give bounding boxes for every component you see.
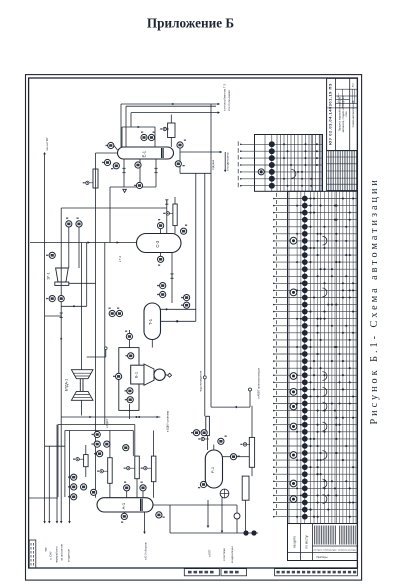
svg-text:Изм Лист: Изм Лист xyxy=(338,93,340,102)
svg-text:на щите: на щите xyxy=(293,536,297,548)
svg-text:Р-1: Р-1 xyxy=(210,466,215,473)
svg-text:2-х ступенчатая: 2-х ступенчатая xyxy=(227,90,231,111)
svg-text:Е-1: Е-1 xyxy=(142,150,147,157)
svg-text:Т-1: Т-1 xyxy=(148,318,153,325)
svg-text:Рисунок Б.1- Схема автоматиза: Рисунок Б.1- Схема автоматизации xyxy=(369,177,380,424)
svg-text:в БДКУ установку: в БДКУ установку xyxy=(166,410,170,432)
svg-text:конденсации: конденсации xyxy=(230,546,234,563)
svg-text:пар: пар xyxy=(44,547,48,552)
svg-text:контроль расхода: контроль расхода xyxy=(338,550,357,552)
svg-text:БТДА-1: БТДА-1 xyxy=(65,379,69,391)
svg-text:В-1: В-1 xyxy=(134,371,139,378)
svg-text:в теплообменник Т-2: в теплообменник Т-2 xyxy=(223,83,227,111)
svg-text:в БДКУ: в БДКУ xyxy=(105,418,109,428)
svg-text:на орошение: на орошение xyxy=(60,544,64,561)
svg-text:отдувка: отдувка xyxy=(211,160,215,170)
svg-text:Приборы: Приборы xyxy=(317,555,328,559)
svg-text:к Т-2: к Т-2 xyxy=(118,255,122,262)
svg-text:контроль температуры: контроль температуры xyxy=(313,550,337,552)
svg-text:в системе: в системе xyxy=(222,548,226,561)
svg-text:конденсат: конденсат xyxy=(67,548,71,562)
svg-text:и. САУ: и. САУ xyxy=(49,551,53,560)
svg-text:Приложение Б: Приложение Б xyxy=(147,16,234,31)
svg-text:Схема автоматизации: Схема автоматизации xyxy=(351,100,355,127)
svg-text:в Е-3 сборник: в Е-3 сборник xyxy=(144,541,148,560)
svg-text:ЗГ-1: ЗГ-1 xyxy=(47,272,51,279)
svg-text:ЮУ 02.03.04.140301.19 ПЗ: ЮУ 02.03.04.140301.19 ПЗ xyxy=(328,83,333,145)
svg-text:под охлаждение: под охлаждение xyxy=(199,370,203,392)
svg-text:С-3: С-3 xyxy=(155,240,160,247)
svg-text:и АБВГ кристаллизации: и АБВГ кристаллизации xyxy=(256,367,260,399)
svg-text:переработки: переработки xyxy=(55,546,59,563)
svg-text:газа: газа xyxy=(345,111,348,116)
svg-text:Лист: Лист xyxy=(353,83,355,88)
svg-text:в ЕПГ: в ЕПГ xyxy=(208,549,212,557)
svg-text:газ на ГФУ: газ на ГФУ xyxy=(45,137,49,151)
svg-text:А-1: А-1 xyxy=(121,502,126,509)
svg-text:в конденсатор: в конденсатор xyxy=(225,152,229,171)
svg-text:по месту: по месту xyxy=(305,535,309,548)
